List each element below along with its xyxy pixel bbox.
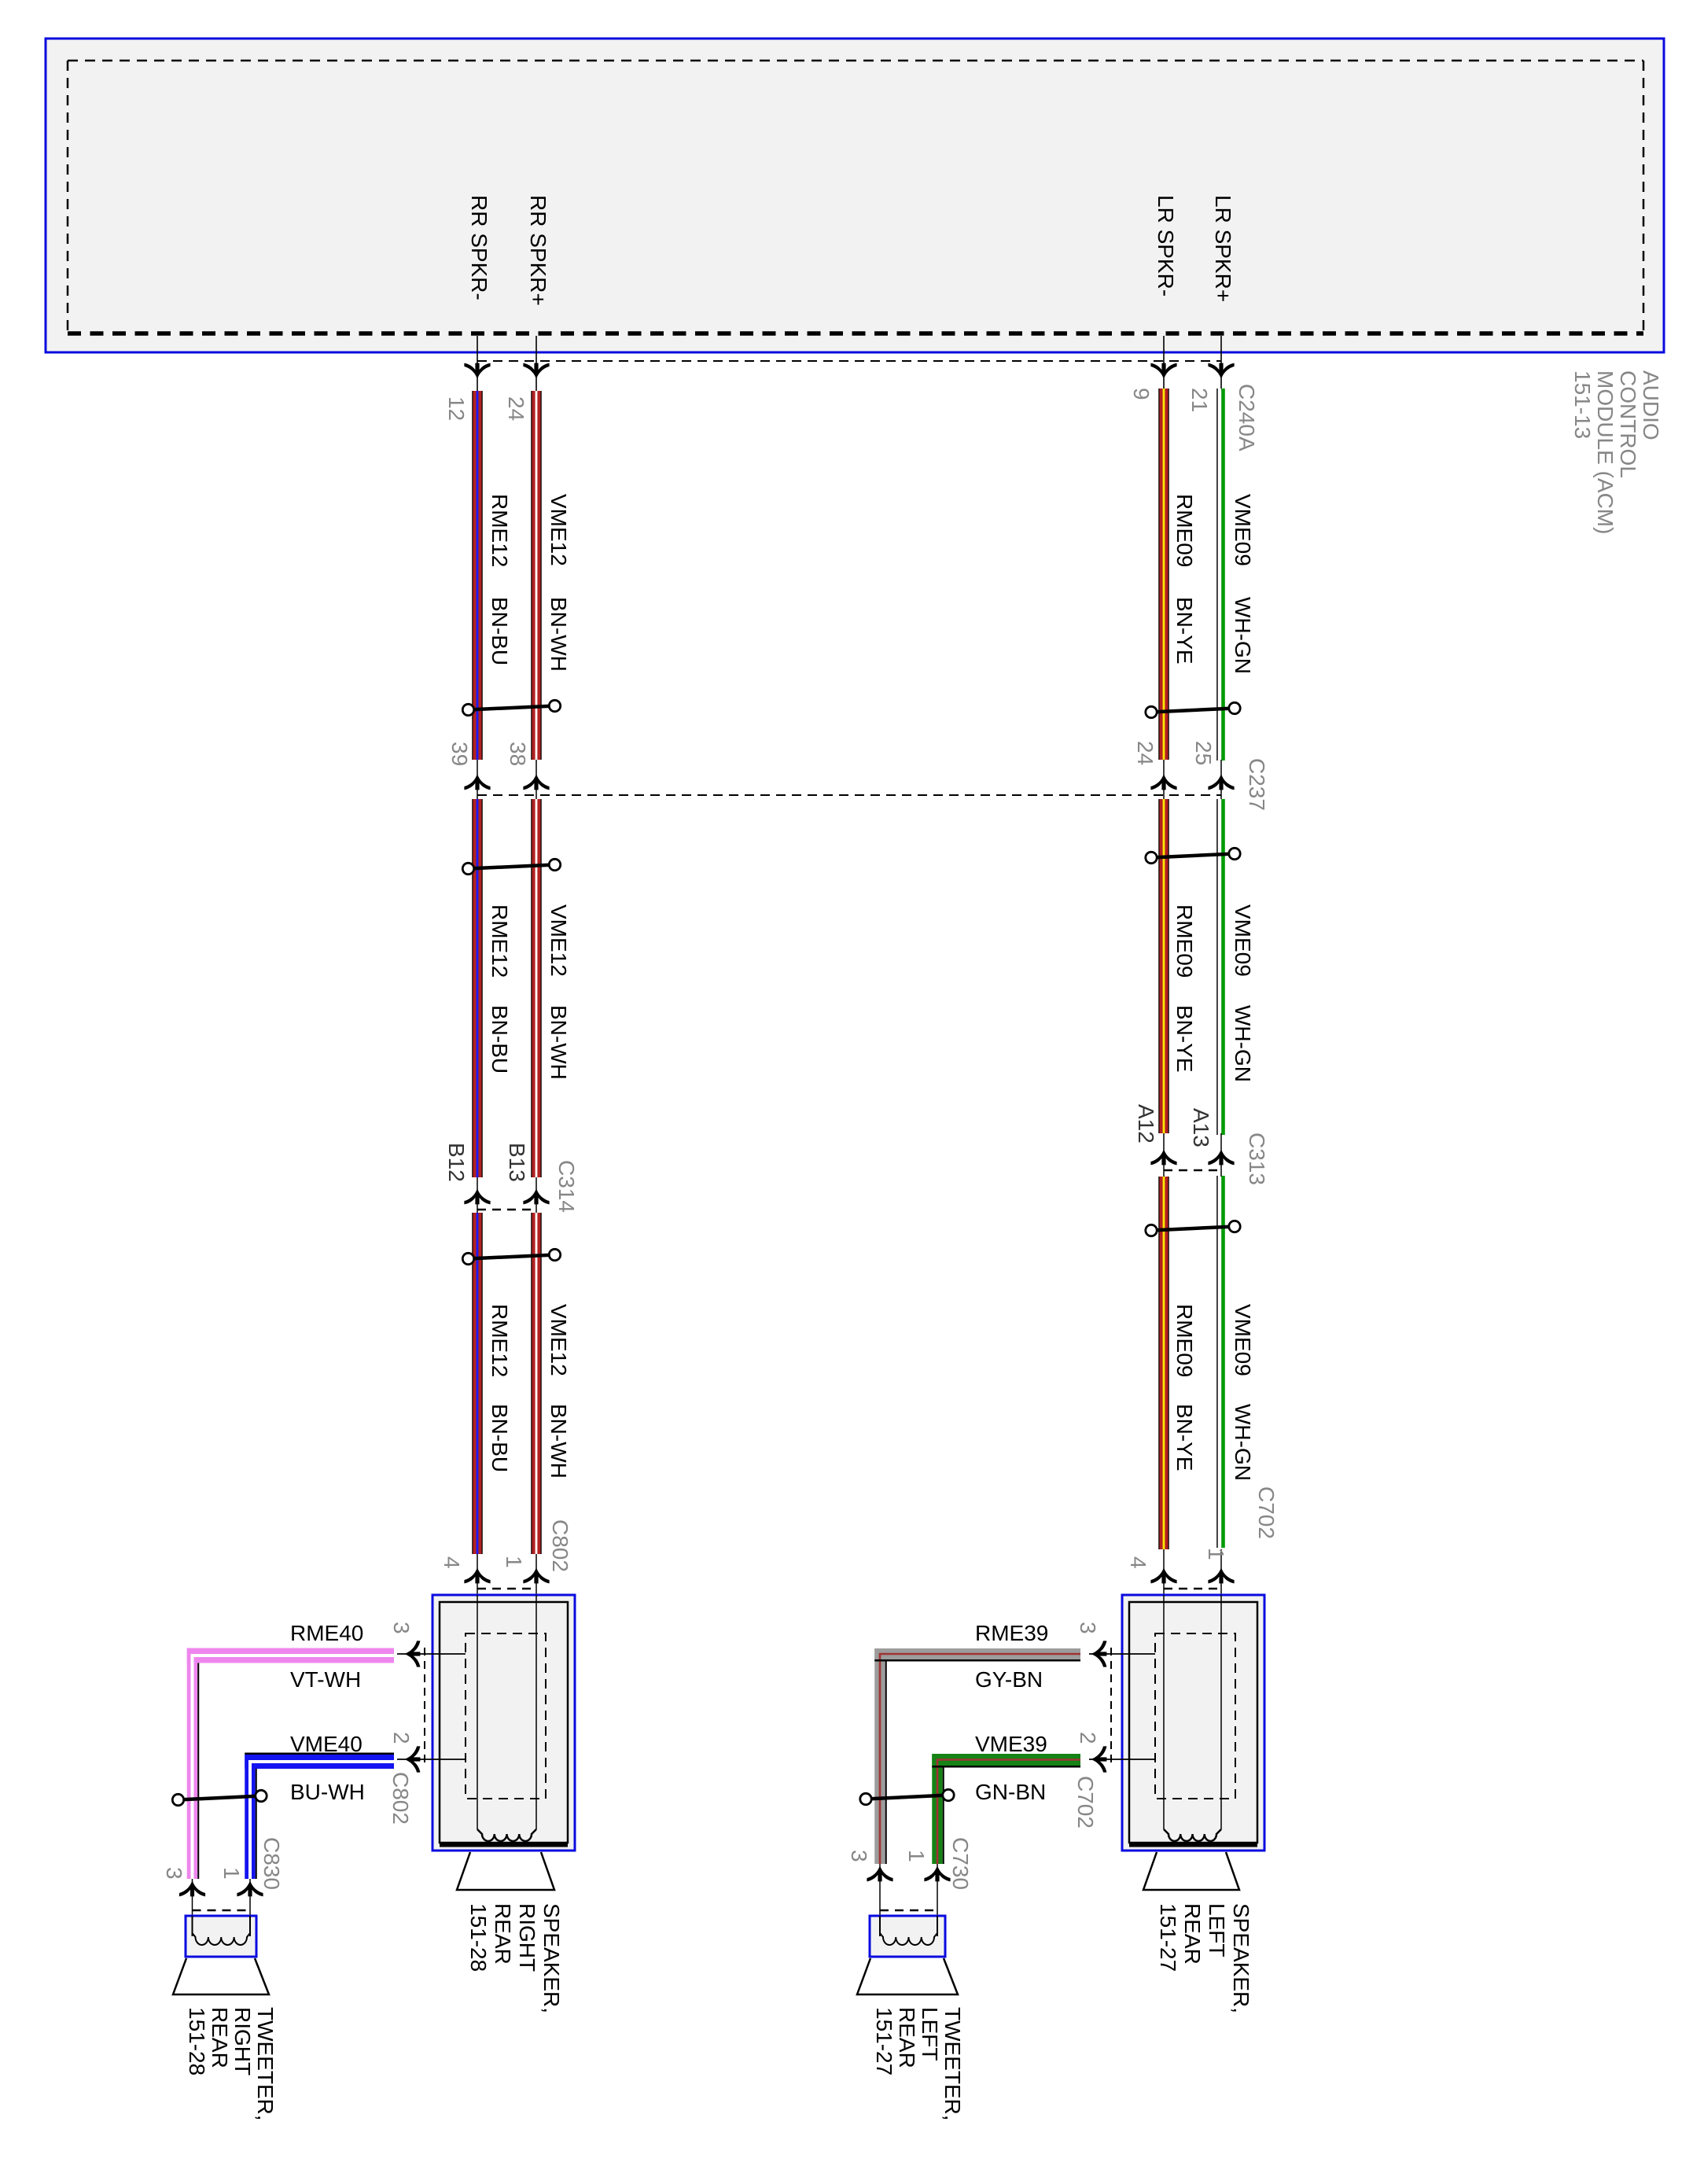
svg-text:C240A: C240A bbox=[1235, 384, 1259, 451]
svg-text:VME09: VME09 bbox=[1231, 1304, 1255, 1376]
svg-text:151-28: 151-28 bbox=[185, 2007, 209, 2075]
svg-text:24: 24 bbox=[504, 396, 528, 421]
svg-text:BN-BU: BN-BU bbox=[488, 1404, 512, 1472]
svg-text:39: 39 bbox=[447, 742, 472, 766]
svg-text:REAR: REAR bbox=[208, 2007, 232, 2068]
svg-text:REAR: REAR bbox=[491, 1903, 515, 1965]
svg-text:C730: C730 bbox=[948, 1837, 973, 1890]
svg-text:BN-BU: BN-BU bbox=[488, 597, 512, 665]
svg-text:C313: C313 bbox=[1245, 1133, 1269, 1185]
svg-text:1: 1 bbox=[219, 1867, 244, 1880]
svg-text:VT-WH: VT-WH bbox=[290, 1667, 361, 1692]
svg-text:C702: C702 bbox=[1254, 1486, 1279, 1539]
svg-text:RME40: RME40 bbox=[290, 1621, 363, 1645]
svg-text:151-13: 151-13 bbox=[1570, 370, 1595, 439]
svg-text:VME09: VME09 bbox=[1231, 494, 1255, 566]
svg-text:3: 3 bbox=[162, 1867, 186, 1880]
svg-text:BU-WH: BU-WH bbox=[290, 1780, 365, 1804]
svg-text:C237: C237 bbox=[1245, 758, 1269, 811]
svg-text:9: 9 bbox=[1129, 388, 1154, 400]
svg-text:RME12: RME12 bbox=[488, 904, 512, 978]
svg-text:VME12: VME12 bbox=[547, 904, 571, 977]
svg-text:WH-GN: WH-GN bbox=[1231, 1404, 1255, 1481]
svg-text:C314: C314 bbox=[554, 1160, 579, 1213]
svg-text:2: 2 bbox=[389, 1732, 414, 1744]
svg-text:REAR: REAR bbox=[1180, 1903, 1205, 1965]
svg-text:RIGHT: RIGHT bbox=[230, 2007, 255, 2075]
svg-text:21: 21 bbox=[1187, 388, 1212, 412]
svg-text:C830: C830 bbox=[259, 1837, 284, 1890]
svg-text:BN-YE: BN-YE bbox=[1172, 597, 1197, 665]
svg-text:LR SPKR+: LR SPKR+ bbox=[1211, 195, 1235, 302]
svg-text:BN-WH: BN-WH bbox=[547, 597, 571, 672]
svg-text:RME09: RME09 bbox=[1172, 494, 1197, 567]
svg-text:RME09: RME09 bbox=[1172, 1304, 1197, 1377]
svg-text:C702: C702 bbox=[1073, 1776, 1098, 1829]
svg-text:4: 4 bbox=[1126, 1556, 1150, 1569]
svg-text:RME39: RME39 bbox=[975, 1621, 1048, 1645]
svg-text:A12: A12 bbox=[1134, 1104, 1158, 1144]
svg-text:C802: C802 bbox=[388, 1772, 413, 1825]
svg-text:LEFT: LEFT bbox=[1205, 1903, 1229, 1957]
svg-text:VME39: VME39 bbox=[975, 1732, 1047, 1756]
svg-text:3: 3 bbox=[847, 1850, 871, 1862]
svg-text:BN-WH: BN-WH bbox=[547, 1404, 571, 1479]
svg-text:BN-BU: BN-BU bbox=[488, 1005, 512, 1074]
svg-text:3: 3 bbox=[1076, 1622, 1100, 1634]
svg-text:GY-BN: GY-BN bbox=[975, 1667, 1043, 1692]
svg-text:24: 24 bbox=[1133, 741, 1157, 765]
svg-text:4: 4 bbox=[440, 1556, 464, 1569]
svg-text:RR SPKR+: RR SPKR+ bbox=[526, 195, 550, 306]
svg-text:BN-YE: BN-YE bbox=[1172, 1005, 1197, 1073]
svg-text:TWEETER,: TWEETER, bbox=[253, 2007, 278, 2121]
svg-text:LEFT: LEFT bbox=[918, 2007, 942, 2061]
svg-text:VME12: VME12 bbox=[547, 1304, 571, 1376]
svg-text:25: 25 bbox=[1191, 741, 1216, 765]
svg-text:RME12: RME12 bbox=[488, 494, 512, 567]
svg-text:151-27: 151-27 bbox=[872, 2007, 896, 2075]
svg-text:REAR: REAR bbox=[895, 2007, 919, 2068]
svg-text:RIGHT: RIGHT bbox=[515, 1903, 539, 1972]
svg-text:WH-GN: WH-GN bbox=[1231, 1005, 1255, 1082]
svg-text:RME12: RME12 bbox=[488, 1304, 512, 1377]
svg-text:2: 2 bbox=[1076, 1732, 1100, 1744]
svg-text:C802: C802 bbox=[548, 1519, 572, 1572]
svg-text:VME09: VME09 bbox=[1231, 904, 1255, 977]
svg-text:LR SPKR-: LR SPKR- bbox=[1154, 195, 1178, 296]
svg-text:1: 1 bbox=[904, 1850, 929, 1862]
svg-text:MODULE (ACM): MODULE (ACM) bbox=[1593, 370, 1618, 534]
svg-text:38: 38 bbox=[506, 742, 530, 766]
svg-text:SPEAKER,: SPEAKER, bbox=[1229, 1903, 1253, 2013]
svg-text:CONTROL: CONTROL bbox=[1616, 370, 1640, 478]
svg-text:B13: B13 bbox=[505, 1143, 529, 1182]
svg-text:151-28: 151-28 bbox=[466, 1903, 491, 1972]
svg-text:B12: B12 bbox=[444, 1143, 469, 1182]
svg-text:RR SPKR-: RR SPKR- bbox=[467, 195, 491, 300]
svg-text:BN-YE: BN-YE bbox=[1172, 1404, 1197, 1471]
svg-text:SPEAKER,: SPEAKER, bbox=[539, 1903, 564, 2013]
svg-text:GN-BN: GN-BN bbox=[975, 1780, 1046, 1804]
svg-text:AUDIO: AUDIO bbox=[1639, 370, 1663, 440]
svg-text:151-27: 151-27 bbox=[1156, 1903, 1180, 1972]
svg-text:VME12: VME12 bbox=[547, 494, 571, 566]
svg-text:TWEETER,: TWEETER, bbox=[940, 2007, 965, 2121]
svg-text:3: 3 bbox=[389, 1622, 414, 1634]
svg-text:1: 1 bbox=[502, 1556, 526, 1568]
svg-text:WH-GN: WH-GN bbox=[1231, 597, 1255, 674]
svg-text:1: 1 bbox=[1204, 1548, 1228, 1560]
svg-text:BN-WH: BN-WH bbox=[547, 1005, 571, 1080]
svg-text:RME09: RME09 bbox=[1172, 904, 1197, 978]
svg-text:VME40: VME40 bbox=[290, 1732, 363, 1756]
svg-text:12: 12 bbox=[444, 396, 469, 421]
svg-text:A13: A13 bbox=[1189, 1108, 1213, 1147]
